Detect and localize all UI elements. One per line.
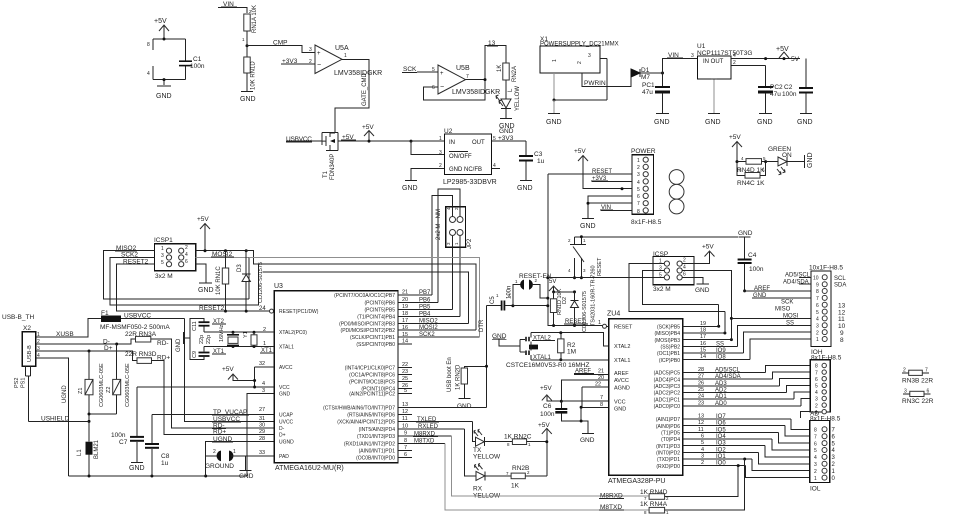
svg-text:RD+: RD+ — [157, 354, 170, 361]
svg-text:OUT: OUT — [472, 140, 485, 146]
svg-text:RN2A: RN2A — [512, 66, 518, 82]
svg-text:(OC1)PB1: (OC1)PB1 — [657, 351, 680, 357]
svg-text:AVCC: AVCC — [614, 378, 629, 384]
wire ICSP1 +5V row — [196, 250, 247, 252]
svg-text:(RTS/AIN5/INT6)PD6: (RTS/AIN5/INT6)PD6 — [347, 413, 395, 419]
resistor RN4C 1K — [737, 162, 766, 187]
svg-text:19: 19 — [700, 321, 706, 327]
svg-text:3: 3 — [815, 397, 818, 403]
svg-text:7: 7 — [925, 368, 928, 374]
wire IO8 to IOH pin1 — [750, 339, 811, 360]
svg-text:7: 7 — [600, 395, 603, 401]
test point GROUND on PAD — [205, 449, 274, 470]
LED ON green — [766, 146, 792, 175]
svg-text:(RXD)PD0: (RXD)PD0 — [656, 464, 680, 470]
svg-text:GND: GND — [695, 287, 710, 294]
svg-text:GND: GND — [499, 128, 514, 135]
resistor RN2A 1K — [497, 63, 518, 99]
svg-text:5: 5 — [161, 260, 164, 266]
svg-text:(PDI/MOSI/PCINT2)PB2: (PDI/MOSI/PCINT2)PB2 — [341, 328, 396, 334]
wire XTAL1 row — [204, 346, 274, 348]
svg-text:14: 14 — [402, 339, 408, 345]
svg-text:(PCINT7/OC0A/OC1C)PB7: (PCINT7/OC0A/OC1C)PB7 — [334, 293, 395, 299]
svg-text:(ADC2)PC2: (ADC2)PC2 — [654, 391, 681, 397]
svg-text:C7: C7 — [119, 439, 128, 446]
svg-text:T1: T1 — [323, 170, 329, 178]
svg-text:USB-B_TH: USB-B_TH — [2, 314, 34, 321]
svg-text:C9: C9 — [192, 351, 198, 358]
svg-text:1M: 1M — [567, 349, 576, 356]
ground (crystal caps, rotated) — [176, 332, 190, 352]
wire USHIELD — [28, 416, 89, 423]
svg-text:(INT4/ICP1/CLK0)PC7: (INT4/ICP1/CLK0)PC7 — [345, 366, 396, 372]
node RESET2 label at U3 — [198, 305, 225, 312]
resistor RN1D 10K — [244, 46, 257, 91]
svg-text:GND: GND — [176, 338, 182, 352]
svg-text:D+: D+ — [104, 345, 113, 352]
resistor R1 1M — [251, 331, 274, 354]
svg-text:3x2 M: 3x2 M — [653, 286, 671, 293]
solder jumper RESET-EN — [513, 273, 552, 306]
wire ICSP MOSI loop — [682, 271, 731, 319]
svg-text:JP2: JP2 — [467, 238, 473, 249]
+5V symbol (green LED) — [729, 134, 742, 162]
svg-text:(TXD1/INT3)PD3: (TXD1/INT3)PD3 — [357, 434, 395, 440]
svg-text:25: 25 — [402, 376, 408, 382]
svg-text:19: 19 — [402, 304, 408, 310]
svg-text:3: 3 — [588, 53, 591, 59]
ground (ICSP) — [695, 284, 710, 294]
svg-text:23: 23 — [698, 400, 704, 406]
svg-text:11: 11 — [402, 416, 408, 422]
ground (C7) — [129, 463, 145, 473]
svg-text:4: 4 — [185, 252, 188, 258]
wire ICSP SCK loop — [643, 271, 719, 305]
svg-text:8: 8 — [840, 337, 844, 344]
svg-text:U5B: U5B — [456, 65, 470, 72]
svg-text:(INT0)PD2: (INT0)PD2 — [656, 451, 680, 457]
svg-text:GND: GND — [517, 185, 533, 192]
ground (X1) — [546, 100, 562, 126]
svg-text:32: 32 — [259, 361, 265, 367]
svg-text:5: 5 — [701, 440, 704, 446]
svg-text:GROUND: GROUND — [205, 463, 234, 470]
svg-text:USB boot En: USB boot En — [447, 357, 453, 392]
svg-text:GND: GND — [757, 119, 773, 126]
capacitor C8 1u — [145, 415, 170, 477]
svg-text:7: 7 — [404, 445, 407, 451]
svg-text:4: 4 — [814, 455, 817, 461]
wire XTAL1 (328) — [531, 355, 609, 361]
svg-text:22p: 22p — [199, 335, 205, 344]
net labels at U3 right — [413, 290, 440, 445]
svg-text:2: 2 — [185, 245, 188, 251]
svg-text:GATE_CMD: GATE_CMD — [362, 72, 368, 106]
svg-text:(AIN0/INT1)PD1: (AIN0/INT1)PD1 — [359, 449, 396, 455]
svg-text:RX: RX — [473, 486, 483, 493]
svg-text:2: 2 — [815, 403, 818, 409]
wire SCK2 loop — [110, 252, 258, 306]
svg-text:100n: 100n — [749, 266, 764, 273]
node VIN junction at D1 out — [661, 72, 664, 75]
+5V symbol (U5 supply) — [154, 18, 169, 39]
svg-text:2: 2 — [701, 460, 704, 466]
wire XTAL2 (328) — [531, 333, 609, 346]
svg-text:ATMEGA16U2-MU(R): ATMEGA16U2-MU(R) — [275, 465, 344, 472]
svg-text:5: 5 — [814, 448, 817, 454]
wire D+ with resistor RN3D 22R — [44, 345, 274, 434]
varistor Z2 CG0603MLC-05E — [106, 344, 131, 414]
connector ICSP1 3x2 M — [154, 237, 196, 280]
svg-text:GND: GND — [129, 465, 145, 472]
svg-text:8x1F-H8.5: 8x1F-H8.5 — [810, 416, 841, 423]
svg-text:6: 6 — [683, 272, 686, 278]
svg-text:24: 24 — [259, 306, 266, 312]
wire GND POWER pins 6,7 — [588, 196, 632, 218]
capacitor PC2 47u — [758, 84, 783, 113]
svg-text:16MHz: 16MHz — [219, 324, 225, 342]
svg-text:SCL: SCL — [834, 276, 846, 282]
svg-text:100n: 100n — [190, 63, 205, 70]
svg-text:RESET: RESET — [597, 257, 603, 276]
net label RD- (U3) — [212, 422, 226, 429]
svg-text:(SCK)PB5: (SCK)PB5 — [657, 325, 680, 331]
op-amp U5 supply block with C1 — [147, 18, 205, 100]
svg-text:(ADC4)PC4: (ADC4)PC4 — [654, 377, 681, 383]
svg-text:12: 12 — [698, 420, 704, 426]
svg-text:47u: 47u — [770, 91, 781, 98]
svg-text:(T0)PD4: (T0)PD4 — [661, 437, 680, 443]
svg-text:6: 6 — [816, 303, 819, 309]
wire GATE_CMD output — [335, 59, 369, 133]
wire DTR vertical — [479, 306, 488, 408]
svg-text:+5V: +5V — [702, 244, 714, 251]
ground (green LED, rotated) — [787, 152, 814, 168]
svg-text:6: 6 — [701, 433, 704, 439]
capacitor C5 100n — [487, 286, 513, 311]
svg-text:1: 1 — [161, 246, 164, 252]
svg-text:UGND: UGND — [62, 385, 68, 403]
wire JP2 harness to U3 PB4-PB7 — [432, 189, 460, 316]
svg-text:CD1206-S01575: CD1206-S01575 — [582, 291, 588, 332]
fuse F1 MF-MSMF050-2 500mA — [44, 310, 185, 338]
svg-text:XTAL1: XTAL1 — [279, 345, 294, 351]
ZU4 right pin stubs, numbers, nets — [683, 300, 811, 478]
+5V symbol (U3 AVCC/VCC) — [222, 366, 255, 381]
svg-text:15: 15 — [402, 332, 408, 338]
pin 1 bubble ZU4 RESET — [598, 320, 609, 328]
svg-text:13: 13 — [402, 402, 408, 408]
+5V symbol (T1 out) — [362, 124, 374, 143]
svg-text:2: 2 — [577, 61, 583, 64]
svg-text:GND: GND — [156, 93, 172, 100]
svg-text:UCAP: UCAP — [279, 413, 294, 419]
wire ICSP MISO loop — [629, 264, 725, 312]
svg-text:3: 3 — [309, 47, 312, 53]
svg-text:6: 6 — [815, 377, 818, 383]
svg-text:(AIN1)PD7: (AIN1)PD7 — [656, 417, 680, 423]
diode D2 CD1206-S01575 — [554, 290, 579, 325]
crystal Y1 16MHz — [219, 324, 249, 348]
IC U3 ATMEGA16U2-MU(R) body — [274, 283, 398, 472]
svg-text:1: 1 — [552, 59, 558, 62]
svg-text:GND: GND — [198, 287, 214, 294]
+5V symbol (TX/RX LEDs) — [538, 422, 552, 476]
svg-text:(ICP)PB0: (ICP)PB0 — [659, 358, 680, 364]
header AD 8x1F-H8.5 — [800, 360, 840, 423]
ADC pin rows with staircase to AD header — [683, 372, 766, 374]
header IOL 8x1F-H8.5 — [810, 421, 836, 493]
node VIN — [218, 1, 247, 13]
net label UGND (U3) — [212, 436, 233, 443]
svg-text:C3: C3 — [534, 151, 543, 158]
svg-text:8: 8 — [815, 364, 818, 370]
svg-text:3: 3 — [262, 388, 265, 394]
svg-text:100n: 100n — [111, 432, 126, 439]
IC ZU4 ATMEGA328P-PU body — [607, 311, 683, 486]
svg-text:(RXD1/AIN1/INT2)PD2: (RXD1/AIN1/INT2)PD2 — [344, 441, 395, 447]
svg-text:(INT5/AIN3)PD4: (INT5/AIN3)PD4 — [359, 427, 396, 433]
svg-text:+: + — [440, 71, 444, 77]
svg-text:1: 1 — [233, 449, 236, 455]
svg-text:TS42031-160R-TR-7260: TS42031-160R-TR-7260 — [591, 265, 597, 326]
svg-text:AD4/SDA: AD4/SDA — [783, 279, 809, 285]
wire MISO2 loop — [104, 245, 249, 299]
svg-text:3: 3 — [161, 253, 164, 259]
wire AD4/SDA stub (IOH pin9) — [783, 279, 811, 285]
svg-text:PAD: PAD — [279, 454, 289, 460]
svg-text:9: 9 — [404, 431, 407, 437]
svg-text:15: 15 — [700, 348, 706, 354]
svg-text:10: 10 — [402, 424, 408, 430]
svg-text:28: 28 — [698, 367, 704, 373]
net label USBVCC (U3) — [212, 416, 241, 423]
svg-text:RN4C 1K: RN4C 1K — [737, 180, 765, 187]
svg-text:3: 3 — [439, 150, 442, 156]
svg-text:GND: GND — [239, 473, 254, 480]
svg-text:(SS)PB2: (SS)PB2 — [661, 345, 681, 351]
svg-text:16: 16 — [700, 341, 706, 347]
svg-text:5: 5 — [404, 388, 407, 394]
svg-text:(ADC1)PC1: (ADC1)PC1 — [654, 397, 681, 403]
svg-text:POWER: POWER — [631, 148, 656, 155]
wire USBVCC down to U3 UVCC — [185, 319, 275, 422]
node +5V junction — [163, 38, 166, 41]
svg-text:22p: 22p — [206, 335, 212, 344]
svg-text:20: 20 — [402, 297, 408, 303]
VIN divider RN1A / RN1D — [218, 1, 315, 103]
ground (RN1D) — [240, 92, 256, 104]
svg-text:18: 18 — [700, 328, 706, 334]
svg-text:17: 17 — [402, 318, 408, 324]
svg-text:SDA: SDA — [834, 283, 846, 289]
svg-text:3: 3 — [816, 324, 819, 330]
svg-text:4: 4 — [262, 381, 265, 387]
svg-text:(MOSI)PB3: (MOSI)PB3 — [654, 338, 680, 344]
U3 left pin stubs — [259, 327, 274, 456]
svg-text:D-: D- — [279, 426, 285, 432]
svg-text:X2: X2 — [23, 325, 31, 332]
svg-text:23: 23 — [402, 369, 408, 375]
svg-text:2: 2 — [903, 368, 906, 374]
diode D3 CD1206-S01575 — [237, 251, 264, 311]
svg-text:100n: 100n — [540, 411, 555, 418]
svg-text:1: 1 — [439, 136, 442, 142]
svg-text:GND: GND — [580, 223, 596, 230]
svg-text:1K: 1K — [497, 65, 503, 72]
wire UGND row to rail — [206, 442, 275, 477]
ground (RN2D) — [457, 399, 472, 411]
svg-text:M7: M7 — [641, 74, 650, 81]
svg-text:ICSP1: ICSP1 — [154, 237, 173, 244]
svg-text:7: 7 — [814, 434, 817, 440]
svg-text:30: 30 — [259, 423, 265, 429]
svg-text:(XCK/AIN4/PCINT12)PD5: (XCK/AIN4/PCINT12)PD5 — [337, 420, 395, 426]
svg-text:47u: 47u — [642, 89, 653, 96]
svg-text:12: 12 — [402, 409, 408, 415]
svg-text:CG0603MLC-05E: CG0603MLC-05E — [125, 363, 131, 407]
svg-text:7: 7 — [816, 296, 819, 302]
net label RD+ (U3) — [212, 429, 226, 436]
svg-text:GND: GND — [457, 403, 472, 410]
wire UGND from X2 pin4 — [44, 358, 69, 476]
svg-text:XTAL2(PC0): XTAL2(PC0) — [279, 330, 307, 336]
svg-text:5V: 5V — [549, 279, 556, 285]
+5V symbol (reset pullup) — [549, 279, 558, 293]
svg-text:2: 2 — [816, 330, 819, 336]
svg-text:4: 4 — [701, 447, 704, 453]
ground (C3) — [517, 181, 533, 193]
wire X1 pin1 to GND — [553, 73, 555, 100]
svg-text:GND: GND — [654, 119, 670, 126]
ZU4 left pin names — [614, 325, 633, 413]
svg-text:6: 6 — [432, 85, 435, 91]
svg-text:(PCINT9/OC1B)PC5: (PCINT9/OC1B)PC5 — [349, 379, 395, 385]
wire AREF to IOH pin8 — [745, 286, 811, 292]
svg-text:24: 24 — [698, 394, 704, 400]
svg-text:−: − — [317, 62, 321, 69]
svg-text:RESET: RESET — [614, 325, 633, 331]
svg-text:8x1F-H8.5: 8x1F-H8.5 — [631, 219, 662, 226]
svg-text:2: 2 — [439, 163, 442, 169]
node RESET2 junctions — [224, 310, 227, 313]
svg-text:ON: ON — [782, 152, 792, 159]
svg-text:GND: GND — [402, 185, 418, 192]
svg-text:AVCC: AVCC — [279, 365, 293, 371]
svg-text:8: 8 — [816, 289, 819, 295]
capacitor C3 1u — [519, 141, 545, 180]
svg-text:10K RN1D: 10K RN1D — [251, 61, 257, 90]
svg-text:2: 2 — [213, 449, 216, 455]
svg-text:(AIN0)PD6: (AIN0)PD6 — [656, 424, 680, 430]
regulator U2 LP2985-33DBVR — [410, 128, 501, 186]
svg-text:6: 6 — [185, 259, 188, 265]
svg-text:20: 20 — [598, 375, 604, 381]
svg-text:IN: IN — [449, 140, 455, 146]
svg-text:CD1206-S01575: CD1206-S01575 — [258, 262, 264, 303]
svg-text:Y1: Y1 — [243, 331, 249, 338]
header POWER 8x1F-H8.5 — [631, 148, 662, 226]
svg-text:(ADC3)PC3: (ADC3)PC3 — [654, 384, 681, 390]
svg-text:UVCC: UVCC — [279, 420, 294, 426]
resistor RN3B 22R — [902, 368, 933, 385]
svg-text:+5V: +5V — [197, 216, 209, 223]
svg-text:(INT1)PD3: (INT1)PD3 — [656, 444, 680, 450]
PD pin rows with staircase to IOL header — [683, 418, 792, 420]
svg-text:GND: GND — [705, 119, 721, 126]
wire MOSI to IOH pin4 — [731, 313, 811, 319]
svg-text:XTAL2: XTAL2 — [614, 344, 630, 350]
header IOH 10x1F-H8.5 — [809, 265, 846, 362]
wire X1 ground rail — [554, 59, 607, 100]
U3 right pin stubs and numbers — [398, 290, 487, 459]
svg-text:+5V: +5V — [538, 422, 550, 429]
svg-text:22: 22 — [402, 362, 408, 368]
svg-text:8: 8 — [814, 428, 817, 434]
capacitor C7 100n — [111, 387, 144, 462]
svg-text:22: 22 — [595, 382, 601, 388]
LED RX yellow — [465, 429, 501, 500]
svg-text:(PCINT5)PB5: (PCINT5)PB5 — [364, 307, 395, 313]
wire U5 pin8/pin4 supply loop — [153, 39, 186, 85]
ground (resonator) — [492, 333, 520, 346]
svg-text:4: 4 — [147, 71, 150, 77]
svg-text:22R RN3D: 22R RN3D — [125, 351, 157, 358]
wire PWRIN net — [582, 73, 631, 87]
ground (PAD) — [238, 456, 254, 480]
svg-text:LMV358IDGKR: LMV358IDGKR — [334, 70, 382, 77]
svg-text:GND: GND — [807, 152, 814, 168]
svg-text:SS: SS — [786, 320, 794, 326]
net label XT2 — [212, 319, 226, 325]
svg-text:AGND: AGND — [614, 385, 630, 391]
svg-text:YELLOW: YELLOW — [515, 86, 521, 111]
svg-text:U5A: U5A — [335, 45, 349, 52]
svg-text:10: 10 — [813, 276, 819, 282]
svg-text:+5V: +5V — [574, 148, 586, 155]
svg-text:3x2 M: 3x2 M — [155, 273, 173, 280]
wire AVCC branch — [561, 380, 608, 401]
power jack X1 POWERSUPPLY_DC21MMX — [540, 36, 631, 126]
resistor RN2C 1K — [485, 434, 547, 448]
svg-text:28: 28 — [259, 436, 265, 442]
wire UCAP rail to C8 — [152, 414, 274, 416]
ground (ICSP1) — [198, 283, 214, 294]
wire +3V3 out — [492, 128, 527, 142]
wire VCC rail to C7 — [137, 386, 274, 388]
svg-text:IN OUT: IN OUT — [703, 59, 724, 65]
ZU4 right pin names — [654, 325, 681, 470]
inductor L1 BLM21 — [77, 439, 100, 476]
svg-text:C2: C2 — [784, 84, 793, 91]
wire CMP net — [247, 40, 315, 53]
svg-text:GND: GND — [240, 96, 256, 103]
svg-text:7: 7 — [815, 370, 818, 376]
connector JP2 2x2 M - NM — [436, 207, 473, 249]
svg-text:UGND: UGND — [279, 440, 294, 446]
svg-text:1: 1 — [37, 332, 40, 338]
node CMP junction — [246, 44, 249, 47]
svg-text:RN3B 22R: RN3B 22R — [902, 378, 933, 385]
svg-text:(OC1A/PCINT8)PC6: (OC1A/PCINT8)PC6 — [349, 373, 395, 379]
svg-text:8x1F-H8.5: 8x1F-H8.5 — [811, 355, 842, 362]
+5V symbol (regulator out) — [776, 46, 789, 58]
svg-text:(PD0/MISO/PCINT3)PB3: (PD0/MISO/PCINT3)PB3 — [339, 321, 395, 327]
ground (U1) — [705, 114, 721, 127]
svg-text:33: 33 — [259, 450, 265, 456]
svg-text:MF-MSMF050-2 500mA: MF-MSMF050-2 500mA — [100, 324, 170, 331]
svg-text:ZU4: ZU4 — [607, 311, 620, 318]
